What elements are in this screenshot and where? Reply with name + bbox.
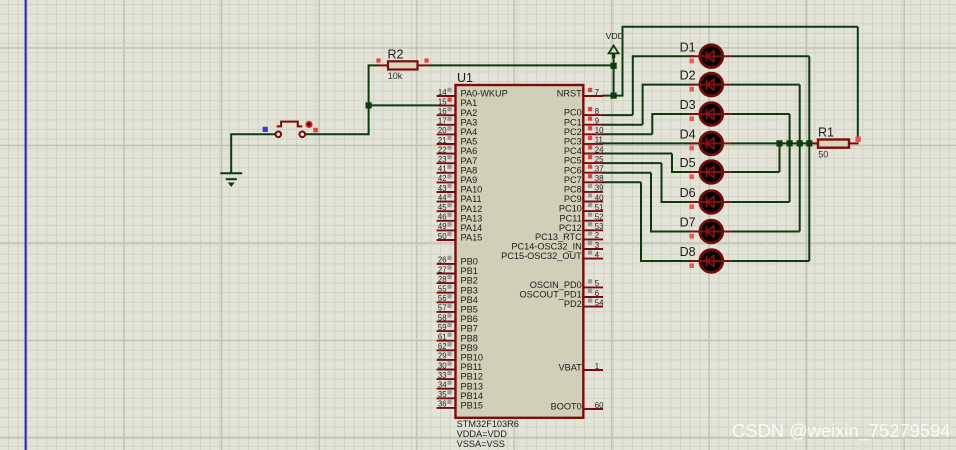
pin PA2 (pin 16): [437, 107, 478, 118]
wire PC4-D5 to LED: [671, 171, 695, 173]
svg-text:52: 52: [595, 213, 604, 222]
resistor R2 lead right: [418, 64, 430, 66]
svg-text:6: 6: [595, 289, 599, 298]
svg-text:46: 46: [438, 213, 447, 222]
pushbutton pin state square (red): [313, 128, 318, 133]
svg-text:16: 16: [438, 107, 447, 116]
svg-text:41: 41: [438, 165, 447, 174]
pin PC5 (pin 25): [564, 155, 604, 166]
pin PC15-OSC32_OUT (pin 4): [501, 250, 603, 261]
wire D3 cathode run: [731, 113, 789, 115]
svg-text:PC14-OSC32_IN: PC14-OSC32_IN: [511, 242, 581, 252]
pin PB5 (pin 57): [437, 304, 478, 315]
svg-text:R2: R2: [388, 47, 404, 61]
wire PC3 to D4: [602, 142, 695, 144]
wire PC5-D6 to LED: [661, 201, 695, 203]
svg-text:D4: D4: [680, 128, 696, 142]
wire PC6-D7 to LED: [650, 231, 695, 233]
svg-text:NRST: NRST: [557, 89, 582, 99]
svg-text:PA10: PA10: [461, 185, 483, 195]
svg-text:PC9: PC9: [564, 194, 582, 204]
pushbutton switch: [276, 122, 306, 138]
svg-text:PB9: PB9: [461, 343, 478, 353]
svg-text:PA14: PA14: [461, 223, 483, 233]
resistor R1 lead right: [849, 142, 859, 144]
svg-text:PA0-WKUP: PA0-WKUP: [461, 89, 508, 99]
svg-text:17: 17: [438, 117, 447, 126]
svg-text:OSCIN_PD0: OSCIN_PD0: [530, 280, 582, 290]
junction bus 4: [806, 140, 812, 146]
wire PC0-D1 horizontal from pin: [602, 114, 633, 116]
LED D7: [690, 220, 732, 243]
svg-text:PA1: PA1: [461, 98, 478, 108]
svg-text:PB5: PB5: [461, 305, 478, 315]
svg-text:38: 38: [595, 174, 604, 183]
svg-text:D3: D3: [680, 98, 696, 112]
svg-text:36: 36: [438, 400, 447, 409]
svg-text:D6: D6: [680, 186, 696, 200]
pin PA11 (pin 44): [437, 193, 482, 204]
svg-text:14: 14: [438, 88, 447, 97]
pin PB4 (pin 56): [437, 294, 478, 305]
wire riser x368: [368, 65, 370, 135]
svg-text:PB12: PB12: [461, 372, 483, 382]
wire D3 riser to bus: [789, 114, 791, 143]
svg-text:23: 23: [438, 155, 447, 164]
svg-text:37: 37: [595, 165, 604, 174]
svg-text:PA13: PA13: [461, 213, 483, 223]
pin PB1 (pin 27): [437, 265, 478, 276]
svg-text:25: 25: [595, 155, 604, 164]
pin PB15 (pin 36): [437, 400, 483, 411]
svg-text:PA8: PA8: [461, 165, 478, 175]
svg-text:PA15: PA15: [461, 233, 483, 243]
svg-text:35: 35: [438, 390, 447, 399]
wire D1 cathode run: [731, 55, 809, 57]
pin VBAT (pin 1): [558, 362, 603, 373]
svg-text:54: 54: [595, 298, 604, 307]
svg-text:PB8: PB8: [461, 333, 478, 343]
pushbutton state square (blue): [263, 127, 268, 132]
svg-text:PB14: PB14: [461, 391, 483, 401]
wire PC2-D3 vertical: [651, 114, 653, 134]
wire NRST east: [602, 95, 623, 97]
junction bus 2: [787, 140, 793, 146]
svg-text:PC11: PC11: [559, 213, 581, 223]
svg-text:9: 9: [595, 117, 599, 126]
wire D2 cathode run: [731, 84, 800, 86]
svg-text:33: 33: [438, 371, 447, 380]
pin PD2 (pin 54): [564, 298, 604, 309]
svg-text:51: 51: [595, 203, 604, 212]
pin PA5 (pin 21): [437, 136, 478, 147]
pin PA1 (pin 15): [437, 97, 478, 108]
svg-text:PB4: PB4: [461, 295, 478, 305]
wire D4 to R1: [731, 142, 811, 144]
LED D6: [690, 191, 732, 214]
svg-text:44: 44: [438, 193, 447, 202]
svg-text:PA4: PA4: [461, 127, 478, 137]
svg-text:4: 4: [595, 250, 600, 259]
pin PB8 (pin 61): [437, 333, 478, 344]
wire PC1-D2 horizontal from pin: [602, 124, 643, 126]
pin OSCIN_PD0 (pin 5): [530, 279, 603, 290]
sheet border (blue): [25, 0, 27, 450]
pin PC12 (pin 53): [559, 222, 604, 233]
wire D8 cathode run: [731, 260, 809, 262]
svg-text:OSCOUT_PD1: OSCOUT_PD1: [520, 290, 582, 300]
resistor R1 lead left: [811, 142, 819, 144]
svg-text:PC10: PC10: [559, 204, 582, 214]
pin PB9 (pin 62): [437, 342, 478, 353]
svg-text:3: 3: [595, 241, 599, 250]
resistor R2 pin marker left: [376, 58, 380, 62]
pin PA12 (pin 45): [437, 203, 483, 214]
pin PB12 (pin 33): [437, 371, 483, 382]
pin PA4 (pin 20): [437, 126, 478, 137]
svg-text:PD2: PD2: [564, 299, 582, 309]
wire R2 to VDD net: [429, 64, 614, 66]
svg-text:62: 62: [438, 342, 447, 351]
svg-text:PB7: PB7: [461, 324, 478, 334]
wire D6 cathode run: [731, 201, 789, 203]
pin PA7 (pin 23): [437, 155, 478, 166]
svg-text:1: 1: [595, 362, 599, 371]
svg-text:61: 61: [438, 333, 447, 342]
svg-text:49: 49: [438, 222, 447, 231]
svg-text:PA6: PA6: [461, 146, 478, 156]
wire gnd vertical: [230, 134, 232, 172]
svg-text:40: 40: [595, 193, 604, 202]
svg-text:VDD: VDD: [606, 31, 624, 41]
svg-text:PB6: PB6: [461, 314, 478, 324]
svg-text:PA12: PA12: [461, 204, 483, 214]
pin PB6 (pin 58): [437, 313, 478, 324]
svg-text:PA2: PA2: [461, 108, 478, 118]
svg-text:22: 22: [438, 145, 447, 154]
svg-text:45: 45: [438, 203, 447, 212]
pin PB2 (pin 28): [437, 275, 478, 286]
LED D4: [690, 132, 732, 155]
pin PC7 (pin 38): [564, 174, 604, 185]
pin PC8 (pin 39): [564, 184, 604, 195]
pin PC4 (pin 24): [564, 145, 604, 156]
wire PC4-D5 horizontal from pin: [602, 153, 672, 155]
svg-text:30: 30: [438, 361, 447, 370]
wire PC7-D8 to LED: [640, 260, 695, 262]
pin PA6 (pin 22): [437, 145, 478, 156]
svg-text:5: 5: [595, 279, 600, 288]
resistor R2 body: [388, 61, 418, 69]
wire down to R1 right: [857, 27, 859, 140]
svg-text:VSSA=VSS: VSSA=VSS: [457, 439, 505, 449]
svg-text:PC0: PC0: [564, 108, 582, 118]
wire PC1-D2 to LED: [642, 84, 695, 86]
wire D5 cathode run: [731, 171, 779, 173]
svg-text:59: 59: [438, 323, 447, 332]
resistor R2 lead left: [377, 64, 388, 66]
wire PC4-D5 vertical: [671, 154, 673, 173]
svg-text:PC5: PC5: [564, 156, 582, 166]
pin PB11 (pin 30): [437, 361, 483, 372]
pin PA14 (pin 49): [437, 222, 483, 233]
pin PB13 (pin 34): [437, 381, 483, 392]
pin PA9 (pin 42): [437, 174, 478, 185]
svg-text:PC13_RTC: PC13_RTC: [535, 232, 582, 242]
wire D8 riser to bus: [808, 143, 810, 261]
pin PA0-WKUP (pin 14): [437, 88, 508, 99]
wire PC7-D8 horizontal from pin: [602, 181, 641, 183]
svg-text:PC3: PC3: [564, 137, 582, 147]
pin OSCOUT_PD1 (pin 6): [520, 289, 603, 300]
svg-text:PA3: PA3: [461, 117, 478, 127]
pin PC14-OSC32_IN (pin 3): [511, 241, 603, 252]
svg-text:PB11: PB11: [461, 362, 483, 372]
wire gnd to button: [230, 133, 275, 135]
LED D5: [690, 161, 732, 184]
svg-text:20: 20: [438, 126, 447, 135]
svg-text:42: 42: [438, 174, 447, 183]
wire D1 riser to bus: [808, 56, 810, 143]
svg-text:10k: 10k: [388, 71, 403, 81]
wire PC0-D1 to LED: [632, 55, 695, 57]
svg-text:55: 55: [438, 285, 447, 294]
svg-text:PC8: PC8: [564, 185, 582, 195]
svg-text:PC2: PC2: [564, 127, 582, 137]
pin PC11 (pin 52): [559, 213, 603, 224]
pin BOOT0 (pin 60): [551, 401, 604, 412]
power symbol VDD: [609, 46, 619, 58]
wire PC2-D3 horizontal from pin: [602, 133, 652, 135]
LED D1 pin state square: [689, 59, 694, 64]
pin PC2 (pin 10): [564, 126, 604, 137]
svg-text:50: 50: [818, 150, 828, 160]
pin PC1 (pin 9): [564, 117, 603, 128]
resistor R1 pin marker right: [855, 137, 860, 142]
LED D8 pin state square: [689, 263, 694, 268]
wire PC2-D3 to LED: [651, 113, 694, 115]
svg-text:29: 29: [438, 352, 447, 361]
svg-text:PC4: PC4: [564, 146, 582, 156]
svg-text:21: 21: [438, 136, 447, 145]
svg-text:PA9: PA9: [461, 175, 478, 185]
svg-text:CSDN @weixin_75279594: CSDN @weixin_75279594: [732, 420, 951, 442]
pin NRST (pin 7): [557, 88, 603, 99]
wire PC5-D6 vertical: [661, 163, 663, 202]
pin PB0 (pin 26): [437, 256, 478, 267]
pin PA8 (pin 41): [437, 165, 478, 176]
svg-text:BOOT0: BOOT0: [551, 402, 582, 412]
junction VDD/NRST: [611, 93, 617, 99]
LED D2 pin state square: [689, 87, 694, 92]
svg-text:PC7: PC7: [564, 175, 582, 185]
pushbutton actuator (red): [306, 122, 311, 127]
junction bus 3: [797, 140, 803, 146]
svg-text:PA5: PA5: [461, 137, 478, 147]
LED D7 pin state square: [689, 234, 694, 239]
pin PB3 (pin 55): [437, 285, 478, 296]
svg-text:PB15: PB15: [461, 401, 483, 411]
LED D1: [690, 45, 732, 68]
resistor R1 body: [818, 140, 849, 148]
pin PC6 (pin 37): [564, 165, 604, 176]
junction bus 1: [776, 140, 782, 146]
svg-text:39: 39: [595, 184, 604, 193]
svg-text:VDDA=VDD: VDDA=VDD: [457, 429, 508, 439]
svg-text:PB0: PB0: [461, 257, 478, 267]
svg-text:R1: R1: [818, 125, 834, 139]
junction PA1 net: [366, 102, 372, 108]
pin PB10 (pin 29): [437, 352, 483, 363]
svg-text:D8: D8: [680, 245, 696, 259]
svg-text:D5: D5: [680, 156, 696, 170]
pin PA3 (pin 17): [437, 117, 478, 128]
wire PC1-D2 vertical: [642, 85, 644, 125]
LED D2: [690, 73, 732, 96]
svg-text:PC1: PC1: [564, 117, 582, 127]
LED D6 pin state square: [689, 204, 694, 209]
svg-text:U1: U1: [457, 71, 473, 85]
pin PC13_RTC (pin 2): [535, 231, 603, 242]
wire D7 cathode run: [731, 231, 800, 233]
svg-text:STM32F103R6: STM32F103R6: [457, 419, 519, 429]
wire D7 riser to bus: [799, 143, 801, 231]
svg-text:2: 2: [595, 231, 599, 240]
svg-text:D1: D1: [680, 40, 696, 54]
svg-text:60: 60: [595, 401, 604, 410]
pin PB7 (pin 59): [437, 323, 478, 334]
wire button to riser: [305, 133, 368, 135]
svg-text:PA11: PA11: [461, 194, 482, 204]
svg-text:11: 11: [595, 136, 603, 145]
svg-text:56: 56: [438, 294, 447, 303]
svg-text:15: 15: [438, 97, 447, 106]
LED D5 pin state square: [689, 174, 694, 179]
wire PC0-D1 vertical: [632, 56, 634, 115]
svg-text:PB13: PB13: [461, 381, 483, 391]
svg-text:58: 58: [438, 313, 447, 322]
svg-text:PB10: PB10: [461, 353, 483, 363]
LED D3 pin state square: [689, 116, 694, 121]
svg-text:PB1: PB1: [461, 266, 478, 276]
svg-text:D2: D2: [680, 69, 696, 83]
svg-text:PB2: PB2: [461, 276, 478, 286]
svg-text:VBAT: VBAT: [558, 363, 582, 373]
wire D2 riser to bus: [799, 85, 801, 144]
wire PC7-D8 vertical: [640, 182, 642, 261]
pin PC9 (pin 40): [564, 193, 604, 204]
pin PB14 (pin 35): [437, 390, 483, 401]
svg-text:10: 10: [595, 126, 604, 135]
pin PC10 (pin 51): [559, 203, 604, 214]
svg-text:26: 26: [438, 256, 447, 265]
wire to R2 left: [368, 64, 378, 66]
pin PA15 (pin 50): [437, 232, 483, 243]
svg-text:PB3: PB3: [461, 285, 478, 295]
wire top run: [622, 26, 858, 28]
svg-text:PC15-OSC32_OUT: PC15-OSC32_OUT: [501, 251, 582, 261]
svg-text:34: 34: [438, 381, 447, 390]
wire to PA1: [369, 104, 438, 106]
wire NRST riser: [622, 27, 624, 97]
wire PC6-D7 horizontal from pin: [602, 172, 651, 174]
wire PC5-D6 horizontal from pin: [602, 162, 662, 164]
pin PC3 (pin 11): [564, 136, 603, 147]
ground: [220, 173, 242, 187]
svg-text:57: 57: [438, 304, 447, 313]
wire D5 riser to bus: [779, 143, 781, 172]
resistor R2 pin marker right: [425, 58, 429, 62]
svg-text:28: 28: [438, 275, 447, 284]
svg-text:53: 53: [595, 222, 604, 231]
svg-text:D7: D7: [680, 216, 696, 230]
junction VDD/R2: [611, 63, 617, 69]
wire VDD down: [613, 56, 615, 96]
svg-text:PC6: PC6: [564, 165, 582, 175]
svg-text:PA7: PA7: [461, 156, 478, 166]
op chip U1 STM32F103R6 body: [456, 85, 584, 418]
svg-text:27: 27: [438, 265, 447, 274]
svg-text:24: 24: [595, 145, 604, 154]
wire D6 riser to bus: [789, 143, 791, 202]
LED D8: [690, 250, 732, 273]
pin PA13 (pin 46): [437, 213, 483, 224]
LED D4 pin state square: [689, 146, 694, 151]
wire PC6-D7 vertical: [650, 173, 652, 232]
svg-text:50: 50: [438, 232, 447, 241]
LED D3: [690, 103, 732, 126]
svg-text:43: 43: [438, 184, 447, 193]
svg-text:7: 7: [595, 88, 599, 97]
pin PC0 (pin 8): [564, 107, 603, 118]
pin PA10 (pin 43): [437, 184, 483, 195]
svg-text:8: 8: [595, 107, 599, 116]
